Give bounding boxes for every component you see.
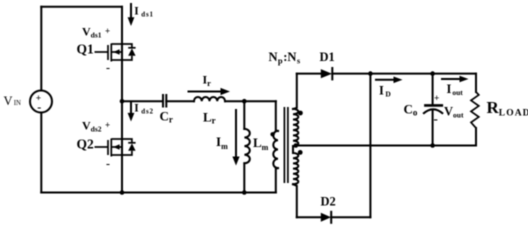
wire secondary top to D1 <box>297 73 321 75</box>
transformer primary winding <box>273 101 278 192</box>
wire top rail <box>41 6 122 8</box>
wire D2 return vertical <box>369 74 371 218</box>
junction center tap <box>294 143 299 148</box>
junction C_o top <box>430 71 435 76</box>
svg-text:+: + <box>434 94 439 104</box>
wire L_r to node A <box>225 100 276 102</box>
capacitor C_r <box>163 95 166 107</box>
current arrow I_ds1 <box>128 4 135 26</box>
junction C_o bottom <box>430 143 435 148</box>
phase dot secondary lower <box>298 150 303 155</box>
capacitor C_o <box>423 74 443 146</box>
transformer secondary lower winding <box>293 146 298 217</box>
svg-text:-: - <box>106 61 110 75</box>
transformer secondary upper winding <box>293 74 298 146</box>
wire C_r to L_r <box>166 100 194 102</box>
current arrow I_out <box>442 76 469 83</box>
wire half-bridge column <box>121 7 123 193</box>
transistor Q2 <box>95 139 136 157</box>
wire left rail upper <box>40 7 42 91</box>
svg-text:D2: D2 <box>321 195 336 209</box>
current arrow I_ds2 <box>128 103 135 122</box>
junction node A <box>242 99 247 104</box>
inductor L_m <box>244 101 250 192</box>
current arrow I_D <box>376 77 403 84</box>
diode D1 <box>321 68 333 79</box>
wire left rail lower <box>40 113 42 193</box>
svg-text:Np:Ns: Np:Ns <box>269 50 301 65</box>
phase dot secondary upper <box>298 111 303 116</box>
phase dot primary <box>270 132 274 136</box>
junction L_m bottom rail <box>242 190 247 195</box>
wire secondary bottom to D2 <box>297 216 321 218</box>
transistor Q1 <box>95 44 136 62</box>
resistor R_LOAD <box>471 74 479 146</box>
svg-text:Q2: Q2 <box>77 137 95 152</box>
svg-text:Q1: Q1 <box>77 42 95 57</box>
transformer core <box>284 107 288 183</box>
wire D2 to output node <box>331 216 370 218</box>
current arrow I_m <box>232 110 239 166</box>
wire ground rail center tap <box>295 145 476 147</box>
junction rectifier output node <box>368 71 373 76</box>
diode D2 <box>321 212 331 223</box>
svg-text:D1: D1 <box>320 50 335 64</box>
junction Q2 source bottom rail <box>120 190 125 195</box>
inductor L_r <box>194 97 225 101</box>
wire D1 to R_LOAD top <box>332 73 476 75</box>
wire midpoint to C_r <box>122 100 163 102</box>
source V_IN <box>30 91 52 115</box>
svg-text:-: - <box>106 157 110 171</box>
junction half-bridge midpoint <box>120 99 125 104</box>
wire bottom rail <box>41 192 275 194</box>
current arrow I_r <box>189 88 231 95</box>
svg-text:-: - <box>434 111 438 126</box>
